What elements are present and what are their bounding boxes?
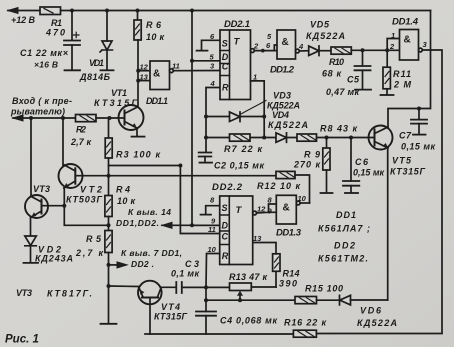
svg-text:КД522А: КД522А	[267, 101, 300, 111]
svg-text:13: 13	[253, 234, 262, 243]
wire R10 to DD1.4	[351, 49, 399, 51]
wire VT2 collector up	[62, 118, 64, 165]
resistor R15	[295, 297, 317, 304]
wire R2 to VT1 base	[96, 117, 125, 119]
wire VT3 collector up	[30, 118, 32, 197]
svg-text:DD1: DD1	[336, 210, 356, 220]
wire DD2.1 pin6 S stub	[197, 40, 221, 50]
svg-text:DD2.1: DD2.1	[224, 19, 250, 30]
resistor R5	[105, 231, 112, 253]
wire input row	[13, 117, 76, 119]
svg-text:C: C	[222, 62, 229, 72]
svg-text:1: 1	[253, 73, 257, 82]
flip-flop DD2.2	[220, 196, 253, 265]
svg-text:КТ315Г: КТ315Г	[154, 312, 187, 322]
svg-text:R16 22 к: R16 22 к	[284, 318, 326, 328]
svg-text:VD1: VD1	[89, 58, 104, 68]
svg-text:VT1: VT1	[111, 88, 127, 98]
wire DD2.2 pin8 S stub	[201, 206, 220, 215]
svg-text:DD1.4: DD1.4	[392, 17, 419, 28]
node R7-VD4	[262, 136, 266, 140]
wire R15 to VD6	[317, 299, 340, 301]
node C7-top	[417, 107, 421, 111]
resistor R6	[137, 11, 139, 21]
transistor VT5	[369, 126, 393, 150]
svg-text:VT5: VT5	[392, 156, 412, 166]
wire VT2 emitter down	[64, 188, 108, 225]
svg-text:К выв. 14: К выв. 14	[128, 207, 171, 217]
svg-text:&: &	[282, 37, 289, 48]
svg-text:10: 10	[208, 245, 217, 254]
svg-text:68 к: 68 к	[322, 69, 341, 79]
capacitor C7	[418, 109, 420, 120]
svg-text:R10: R10	[329, 57, 344, 67]
trimmer R13	[206, 286, 230, 288]
resistor R16	[293, 330, 316, 337]
node R7-left	[204, 136, 208, 140]
svg-text:0,15 мк: 0,15 мк	[401, 142, 435, 152]
svg-text:КД522А: КД522А	[268, 120, 308, 130]
svg-text:КТ817Г.: КТ817Г.	[47, 289, 92, 299]
svg-text:R: R	[222, 251, 229, 261]
zener VD1	[106, 11, 108, 42]
diode VD2	[25, 236, 37, 246]
resistor R11	[386, 50, 388, 67]
wire pin12	[138, 70, 150, 72]
transistor VT4	[138, 281, 162, 305]
wire DD2.2 pin12 out	[257, 211, 277, 214]
arrow input	[13, 115, 23, 121]
svg-text:R11: R11	[393, 69, 411, 79]
node R13 wiper	[238, 298, 242, 302]
svg-text:R14: R14	[283, 269, 300, 279]
node VT3-base	[62, 204, 66, 208]
node C4-top	[204, 298, 208, 302]
nand gate DD1.4	[400, 30, 419, 61]
svg-text:Д814Б: Д814Б	[79, 72, 111, 82]
svg-text:470: 470	[45, 28, 65, 38]
transistor VT1	[119, 105, 144, 130]
nand gate DD1.1	[150, 61, 170, 90]
wire rail drop right	[419, 11, 431, 109]
svg-text:DD1.2: DD1.2	[270, 65, 295, 76]
wire output row	[206, 299, 295, 301]
svg-text:С4 0,068 мк: С4 0,068 мк	[220, 316, 277, 326]
svg-text:2: 2	[253, 42, 259, 51]
svg-text:S: S	[222, 203, 228, 213]
svg-text:C5: C5	[347, 75, 360, 85]
wire VT3 emitter down	[30, 217, 32, 236]
resistor R1	[40, 7, 61, 15]
node pin7 stub	[107, 263, 111, 267]
svg-text:R12 10 к: R12 10 к	[257, 181, 300, 191]
nand gate DD1.2	[277, 30, 296, 59]
node D-bus DD2.1 pin5	[190, 59, 194, 63]
svg-text:+12 В: +12 В	[11, 15, 36, 25]
svg-text:10 к: 10 к	[146, 32, 164, 42]
wire DD1.1 out to DD2.1 C	[173, 70, 220, 72]
wire VT5 collector	[388, 109, 419, 128]
node R4-top	[107, 174, 111, 178]
svg-text:0,15 мк: 0,15 мк	[353, 168, 384, 178]
wire DD1.4 pin1 bracket	[387, 39, 399, 51]
node D-bus bottom	[190, 223, 194, 227]
wire R5 bottom bus	[108, 253, 110, 324]
svg-text:&: &	[404, 35, 411, 46]
svg-text:12: 12	[140, 63, 149, 72]
node input-VT2	[61, 116, 65, 120]
resistor R2	[76, 115, 97, 122]
wire DD1.4 out to right bus	[422, 50, 442, 333]
svg-text:VT3: VT3	[16, 288, 32, 298]
wire C4 stem	[205, 287, 207, 311]
svg-text:&: &	[153, 69, 160, 80]
wire DD2.1 pin4 R	[206, 88, 220, 153]
svg-text:КТ315Г: КТ315Г	[390, 167, 425, 177]
resistor R4	[108, 176, 110, 196]
svg-text:К561ЛА7 ;: К561ЛА7 ;	[318, 224, 370, 234]
svg-text:R1: R1	[51, 18, 62, 28]
wire VT1 emitter	[136, 128, 138, 136]
svg-text:0,47 мк: 0,47 мк	[326, 87, 359, 97]
wire R7 row	[206, 137, 297, 139]
diode VD5	[309, 46, 319, 56]
wire DD1.2 out	[299, 50, 308, 52]
svg-text:R: R	[222, 83, 229, 93]
svg-text:R7 22 к: R7 22 к	[224, 144, 262, 154]
wire R12 right to DD1.3 out	[295, 175, 310, 203]
svg-text:10 к: 10 к	[117, 196, 135, 206]
wire VD6 to VT5 emitter	[351, 299, 388, 301]
svg-text:D: D	[222, 221, 229, 231]
wire VT3 base	[42, 205, 65, 207]
resistor R12	[276, 171, 295, 178]
arrow +12V input	[8, 8, 18, 14]
wire DD2.2 pin10 stub	[206, 254, 220, 288]
svg-text:R13 47 к: R13 47 к	[229, 272, 267, 282]
resistor R7	[230, 134, 251, 141]
svg-text:C1 22 мк×: C1 22 мк×	[20, 48, 69, 58]
node DD1.1 pin12	[136, 69, 140, 73]
svg-text:VT4: VT4	[161, 302, 180, 312]
svg-text:КД243А: КД243А	[35, 254, 73, 264]
wire DD2.1 pin1 out	[251, 81, 265, 138]
svg-text:D: D	[222, 52, 229, 62]
node C5-top	[361, 48, 365, 52]
node C1-top	[70, 9, 74, 13]
svg-text:DD1,DD2.: DD1,DD2.	[116, 218, 159, 228]
wire VT4 collector to C3	[161, 286, 176, 288]
svg-text:2 М: 2 М	[393, 80, 412, 90]
svg-text:рывателю): рывателю)	[10, 107, 65, 117]
svg-text:11: 11	[208, 225, 216, 234]
svg-text:К выв. 7 DD1,: К выв. 7 DD1,	[121, 248, 182, 258]
wire bottom rail	[145, 333, 293, 335]
resistor R9	[326, 138, 328, 149]
svg-text:DD1.3: DD1.3	[276, 228, 302, 239]
svg-text:VD3: VD3	[273, 91, 291, 101]
capacitor C1	[71, 11, 73, 41]
svg-text:Вход ( к пре-: Вход ( к пре-	[12, 96, 72, 106]
svg-text:11: 11	[172, 62, 180, 71]
node C6-top	[349, 136, 353, 140]
svg-text:C: C	[222, 232, 229, 242]
node R11-top	[385, 48, 389, 52]
resistor R14	[275, 271, 277, 287]
resistor R8	[297, 134, 317, 141]
svg-text:R8 43 к: R8 43 к	[320, 124, 357, 134]
svg-text:4: 4	[210, 79, 216, 88]
diode VD3	[230, 112, 241, 122]
svg-text:12: 12	[257, 205, 266, 214]
svg-text:VT2: VT2	[80, 185, 102, 195]
wire R5 top lead	[108, 225, 110, 230]
wire DD1.3 out	[300, 202, 309, 204]
wire R3 bottom to base row	[108, 158, 110, 176]
wire base row W2	[75, 175, 276, 177]
wire R6 to VT1 collector bus	[137, 40, 139, 106]
svg-text:390: 390	[279, 279, 297, 289]
node R9-top	[325, 136, 329, 140]
svg-text:4: 4	[298, 42, 304, 51]
resistor R10	[331, 47, 351, 54]
resistor R3	[108, 118, 110, 138]
svg-text:1: 1	[391, 31, 395, 40]
svg-text:VD6: VD6	[360, 306, 382, 316]
node D-bus top	[190, 9, 194, 13]
wire DD2.1 pin2 out	[254, 50, 277, 52]
node VD3-right	[262, 115, 266, 119]
capacitor C6	[350, 138, 352, 181]
wire to VT4	[109, 285, 139, 288]
svg-text:КД522А: КД522А	[306, 31, 345, 41]
svg-text:C7: C7	[399, 131, 412, 141]
svg-text:10: 10	[298, 194, 307, 203]
svg-text:VT3: VT3	[33, 184, 50, 194]
svg-text:270 к: 270 к	[293, 160, 320, 170]
wire C-bus	[180, 166, 220, 234]
svg-text:Рис. 1: Рис. 1	[5, 334, 39, 346]
svg-text:DD1.1: DD1.1	[146, 96, 168, 106]
svg-text:VD5: VD5	[310, 20, 330, 30]
svg-text:DD2.2: DD2.2	[212, 182, 243, 193]
wire pin13	[138, 80, 150, 82]
svg-text:КТ503Г: КТ503Г	[66, 195, 102, 205]
diode VD6	[340, 295, 351, 305]
wire VT5 emitter down	[387, 148, 389, 300]
wire VT4 base down	[149, 298, 151, 335]
svg-text:13: 13	[140, 72, 149, 81]
label-callout VD3	[240, 101, 266, 115]
nand gate DD1.3	[276, 195, 296, 224]
svg-text:2: 2	[389, 42, 395, 51]
node C3-R13	[204, 285, 208, 289]
node VD3-left	[204, 115, 208, 119]
capacitor C4	[196, 312, 216, 316]
wire W1 to C-bus	[109, 165, 181, 167]
svg-text:&: &	[283, 203, 290, 214]
svg-text:0,1 мк: 0,1 мк	[171, 269, 199, 279]
diode VD4	[276, 133, 287, 143]
wire DD1.2 pin5 bracket	[274, 45, 277, 51]
capacitor C5	[362, 50, 364, 66]
flip-flop DD2.1	[220, 30, 251, 100]
svg-text:S: S	[222, 39, 228, 49]
node C-bus top	[178, 164, 182, 168]
svg-text:КД522А: КД522А	[357, 318, 397, 328]
node VT4-wire	[107, 284, 111, 288]
node VT1-base-R3	[108, 116, 112, 120]
svg-text:R2: R2	[76, 125, 86, 135]
svg-text:R3 100 к: R3 100 к	[116, 150, 160, 160]
svg-text:VD4: VD4	[272, 110, 289, 120]
svg-text:2,7 к: 2,7 к	[70, 137, 91, 147]
svg-text:C2 0,15 мк: C2 0,15 мк	[214, 161, 264, 171]
wire +12V top rail	[8, 10, 431, 12]
wire R8 to VT5 base	[317, 137, 375, 139]
wire DD2.2 pin9 D	[192, 224, 220, 226]
svg-text:DD2 .: DD2 .	[131, 259, 154, 269]
node input-VT3	[29, 116, 33, 120]
wire DD1.3 pin8 bracket	[269, 204, 277, 212]
wire arrow pin14	[162, 224, 220, 226]
node R4-R5	[107, 223, 111, 227]
svg-text:К561ТМ2.: К561ТМ2.	[318, 254, 368, 264]
arrow pin7	[109, 264, 119, 266]
svg-text:R15 100: R15 100	[305, 284, 343, 294]
node DD1.1 pin13	[136, 79, 140, 83]
svg-text:DD2: DD2	[334, 241, 355, 251]
svg-text:×16 В: ×16 В	[34, 60, 58, 70]
transistor VT3	[25, 195, 48, 218]
wire DD2.1 pin5 D	[192, 60, 220, 62]
svg-text:2,7 к: 2,7 к	[75, 248, 103, 258]
wire VD3 row	[206, 116, 264, 118]
transistor VT2	[59, 164, 83, 188]
capacitor C3	[176, 282, 182, 293]
capacitor C2	[199, 153, 212, 157]
node R6-top	[136, 9, 140, 13]
node VD1-top	[105, 9, 109, 13]
wire D bus vertical	[191, 11, 193, 226]
